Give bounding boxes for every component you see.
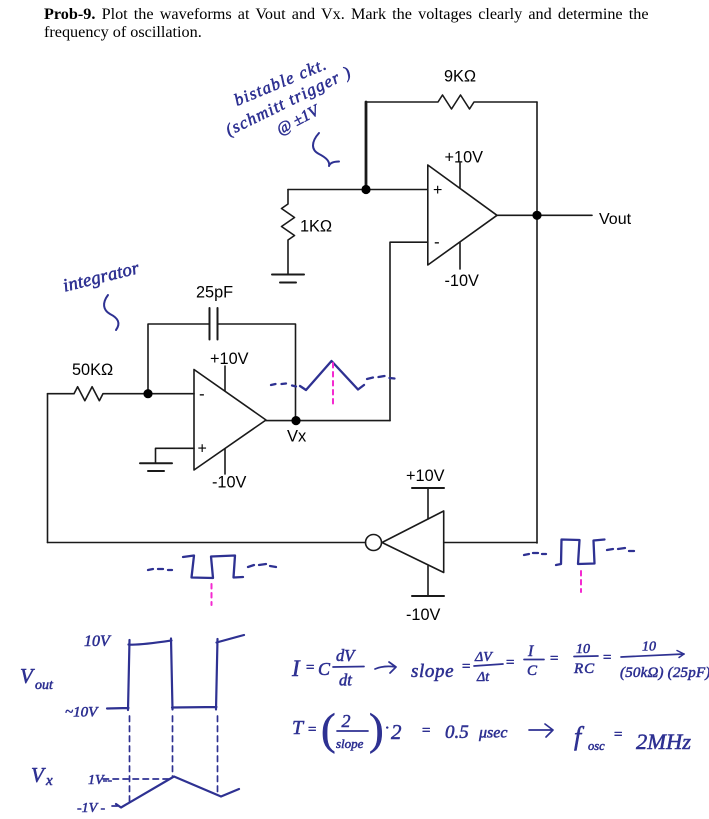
svg-text:·: ·	[385, 720, 389, 737]
svg-text:ΔV: ΔV	[474, 650, 493, 665]
svg-text:): )	[369, 705, 384, 754]
svg-text:10V: 10V	[84, 633, 112, 650]
svg-text:C: C	[527, 663, 538, 679]
svg-text:osc: osc	[588, 739, 605, 753]
svg-text:-1V -: -1V -	[77, 801, 105, 816]
svg-text:+: +	[433, 182, 442, 199]
svg-text:(: (	[321, 705, 336, 754]
svg-text:=: =	[307, 722, 317, 738]
svg-text:Vout: Vout	[599, 211, 632, 228]
svg-text:T: T	[292, 717, 305, 739]
svg-text:V: V	[20, 664, 35, 688]
svg-text:Δt: Δt	[476, 670, 490, 685]
svg-text:-10V: -10V	[406, 606, 441, 624]
svg-text:=: =	[613, 727, 623, 743]
svg-text:+10V: +10V	[445, 149, 484, 167]
svg-text:dt: dt	[339, 671, 352, 690]
svg-text:I: I	[291, 656, 301, 681]
svg-text:slope: slope	[336, 736, 364, 751]
svg-text:+10V: +10V	[406, 467, 445, 485]
svg-text:~10V: ~10V	[65, 705, 99, 721]
svg-text:10: 10	[576, 642, 590, 657]
svg-text:=: =	[461, 659, 471, 675]
svg-text:RC: RC	[573, 661, 595, 677]
svg-text:I: I	[527, 643, 534, 660]
svg-text:=: =	[505, 655, 515, 671]
svg-text:1V--: 1V--	[88, 773, 112, 788]
svg-text:=: =	[602, 650, 612, 666]
svg-text:1KΩ: 1KΩ	[300, 218, 332, 236]
svg-text:2MHz: 2MHz	[636, 729, 691, 754]
svg-text:-10V: -10V	[445, 272, 480, 290]
svg-text:+10V: +10V	[210, 350, 249, 368]
svg-text:out: out	[35, 678, 54, 693]
svg-text:+: +	[198, 441, 207, 458]
svg-text:-: -	[434, 233, 440, 252]
svg-text:=: =	[549, 651, 559, 667]
svg-text:2: 2	[391, 720, 402, 744]
svg-text:dV: dV	[336, 646, 356, 665]
svg-text:=: =	[421, 723, 431, 739]
svg-text:x: x	[45, 773, 53, 789]
svg-text:2: 2	[342, 711, 351, 731]
svg-text:C: C	[318, 659, 331, 679]
svg-text:9KΩ: 9KΩ	[444, 68, 476, 86]
svg-text:25pF: 25pF	[196, 284, 233, 302]
svg-text:V: V	[31, 763, 46, 787]
svg-text:50KΩ: 50KΩ	[72, 361, 113, 379]
svg-text:slope: slope	[411, 661, 454, 682]
svg-text:(50kΩ) (25pF): (50kΩ) (25pF)	[620, 665, 709, 681]
svg-text:10: 10	[642, 640, 656, 655]
svg-text:integrator: integrator	[61, 258, 142, 296]
svg-text:f: f	[574, 722, 585, 751]
svg-text:=: =	[305, 660, 315, 676]
svg-text:0.5: 0.5	[445, 722, 469, 743]
svg-text:-10V: -10V	[212, 474, 247, 492]
svg-text:μsec: μsec	[478, 725, 507, 742]
svg-text:Vx: Vx	[287, 428, 307, 446]
svg-text:-: -	[199, 385, 205, 404]
